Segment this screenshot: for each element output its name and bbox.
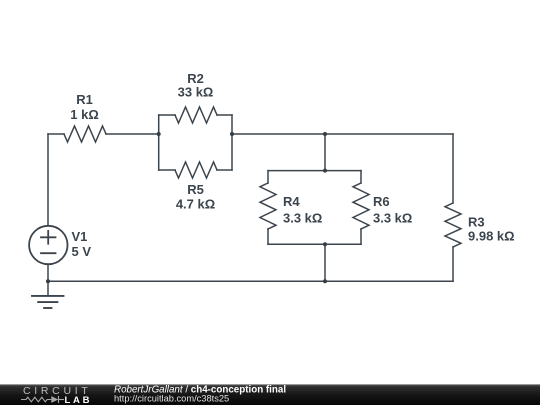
wire box2 left leads	[267, 171, 269, 245]
junction bottom rail	[323, 279, 327, 283]
wire drop node C to box2 top	[324, 134, 326, 171]
ground	[47, 281, 49, 296]
wire right vertical leads R3	[452, 134, 454, 281]
resistor R5	[175, 162, 217, 178]
svg-text:R5: R5	[187, 182, 204, 197]
svg-text:R4: R4	[283, 194, 300, 209]
resistor R3	[445, 203, 461, 247]
resistor R4	[260, 183, 276, 229]
wire top branch leads	[159, 114, 232, 116]
node B junction dot	[230, 132, 234, 136]
voltage source V1	[29, 226, 67, 264]
resistor R1	[64, 126, 106, 142]
wire left vertical top	[47, 134, 49, 226]
wire node B to right corner	[232, 133, 453, 135]
junction box2 bottom	[323, 242, 327, 246]
node A junction dot	[157, 132, 161, 136]
svg-text:V1: V1	[72, 229, 88, 244]
svg-text:33 kΩ: 33 kΩ	[178, 85, 214, 100]
svg-text:R6: R6	[373, 194, 390, 209]
svg-text:3.3 kΩ: 3.3 kΩ	[283, 211, 322, 226]
junction box2 top	[323, 169, 327, 173]
wire parallel box left edge	[158, 115, 160, 170]
svg-text:3.3 kΩ: 3.3 kΩ	[373, 211, 412, 226]
svg-text:1 kΩ: 1 kΩ	[70, 107, 99, 122]
wire top from left corner to R1	[48, 133, 64, 135]
svg-text:R1: R1	[76, 92, 93, 107]
svg-text:4.7 kΩ: 4.7 kΩ	[176, 197, 215, 212]
svg-text:9.98 kΩ: 9.98 kΩ	[468, 229, 515, 244]
wire R1 to node A	[106, 133, 159, 135]
wire box2 top edge	[268, 170, 361, 172]
wire left vertical bottom	[47, 264, 49, 281]
svg-text:R3: R3	[468, 215, 485, 230]
svg-text:http://circuitlab.com/c38ts25: http://circuitlab.com/c38ts25	[114, 394, 229, 404]
wire box2 bottom edge	[268, 243, 361, 245]
resistor R6	[353, 183, 369, 229]
wire bottom rail	[48, 280, 453, 282]
svg-text:5 V: 5 V	[72, 244, 92, 259]
wire bottom branch leads	[159, 169, 232, 171]
wire drop box2 bottom to bottom rail	[324, 244, 326, 281]
wire parallel box right edge	[231, 115, 233, 170]
svg-text:LAB: LAB	[65, 395, 93, 405]
logo resistor-diode glyph	[21, 396, 64, 403]
wire box2 right leads	[360, 171, 362, 245]
node C junction dot	[323, 132, 327, 136]
junction ground	[46, 279, 50, 283]
resistor R2	[175, 107, 217, 123]
footer bar	[0, 384, 540, 405]
